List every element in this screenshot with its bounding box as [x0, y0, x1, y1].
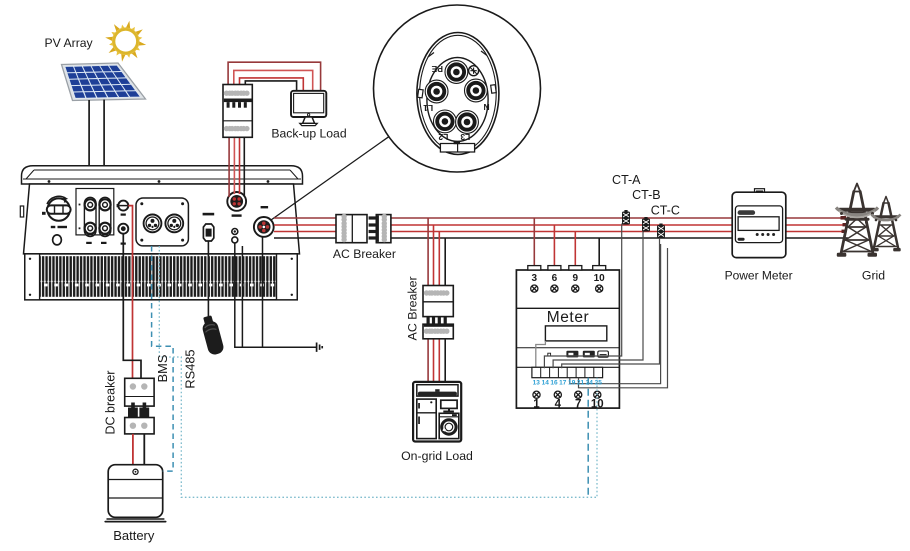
svg-text:7: 7 [575, 399, 581, 411]
svg-text:10: 10 [594, 273, 606, 284]
svg-text:BMS: BMS [155, 355, 170, 383]
svg-text:1: 1 [533, 399, 540, 411]
svg-text:N: N [484, 102, 490, 112]
svg-text:Battery: Battery [113, 528, 155, 543]
svg-text:10: 10 [591, 399, 604, 411]
svg-text:4: 4 [555, 399, 562, 411]
svg-text:AC Breaker: AC Breaker [406, 276, 420, 340]
svg-text:16: 16 [550, 379, 558, 386]
svg-text:On-grid Load: On-grid Load [401, 449, 473, 463]
svg-text:Back-up Load: Back-up Load [271, 126, 346, 140]
svg-text:3: 3 [532, 273, 538, 284]
svg-text:Meter: Meter [547, 309, 590, 326]
svg-text:Grid: Grid [862, 269, 885, 283]
svg-text:21: 21 [577, 379, 585, 386]
svg-text:CT-A: CT-A [612, 173, 641, 187]
svg-text:DC breaker: DC breaker [104, 371, 118, 435]
svg-text:14: 14 [542, 379, 550, 386]
svg-text:6: 6 [552, 273, 558, 284]
svg-text:PE: PE [431, 64, 443, 74]
svg-text:24: 24 [586, 379, 594, 386]
svg-text:L2: L2 [438, 132, 448, 142]
svg-text:PV Array: PV Array [45, 36, 94, 50]
svg-text:RS485: RS485 [183, 349, 198, 388]
svg-text:CT-C: CT-C [651, 204, 680, 218]
svg-text:CT-B: CT-B [632, 188, 660, 202]
svg-text:Power Meter: Power Meter [725, 269, 793, 283]
svg-text:25: 25 [595, 379, 603, 386]
svg-text:L1: L1 [423, 103, 433, 113]
svg-text:AC Breaker: AC Breaker [333, 247, 396, 261]
svg-text:L3: L3 [460, 132, 470, 142]
svg-text:9: 9 [573, 273, 579, 284]
svg-text:13: 13 [533, 379, 541, 386]
svg-text:17: 17 [559, 379, 567, 386]
svg-text:19: 19 [568, 379, 576, 386]
